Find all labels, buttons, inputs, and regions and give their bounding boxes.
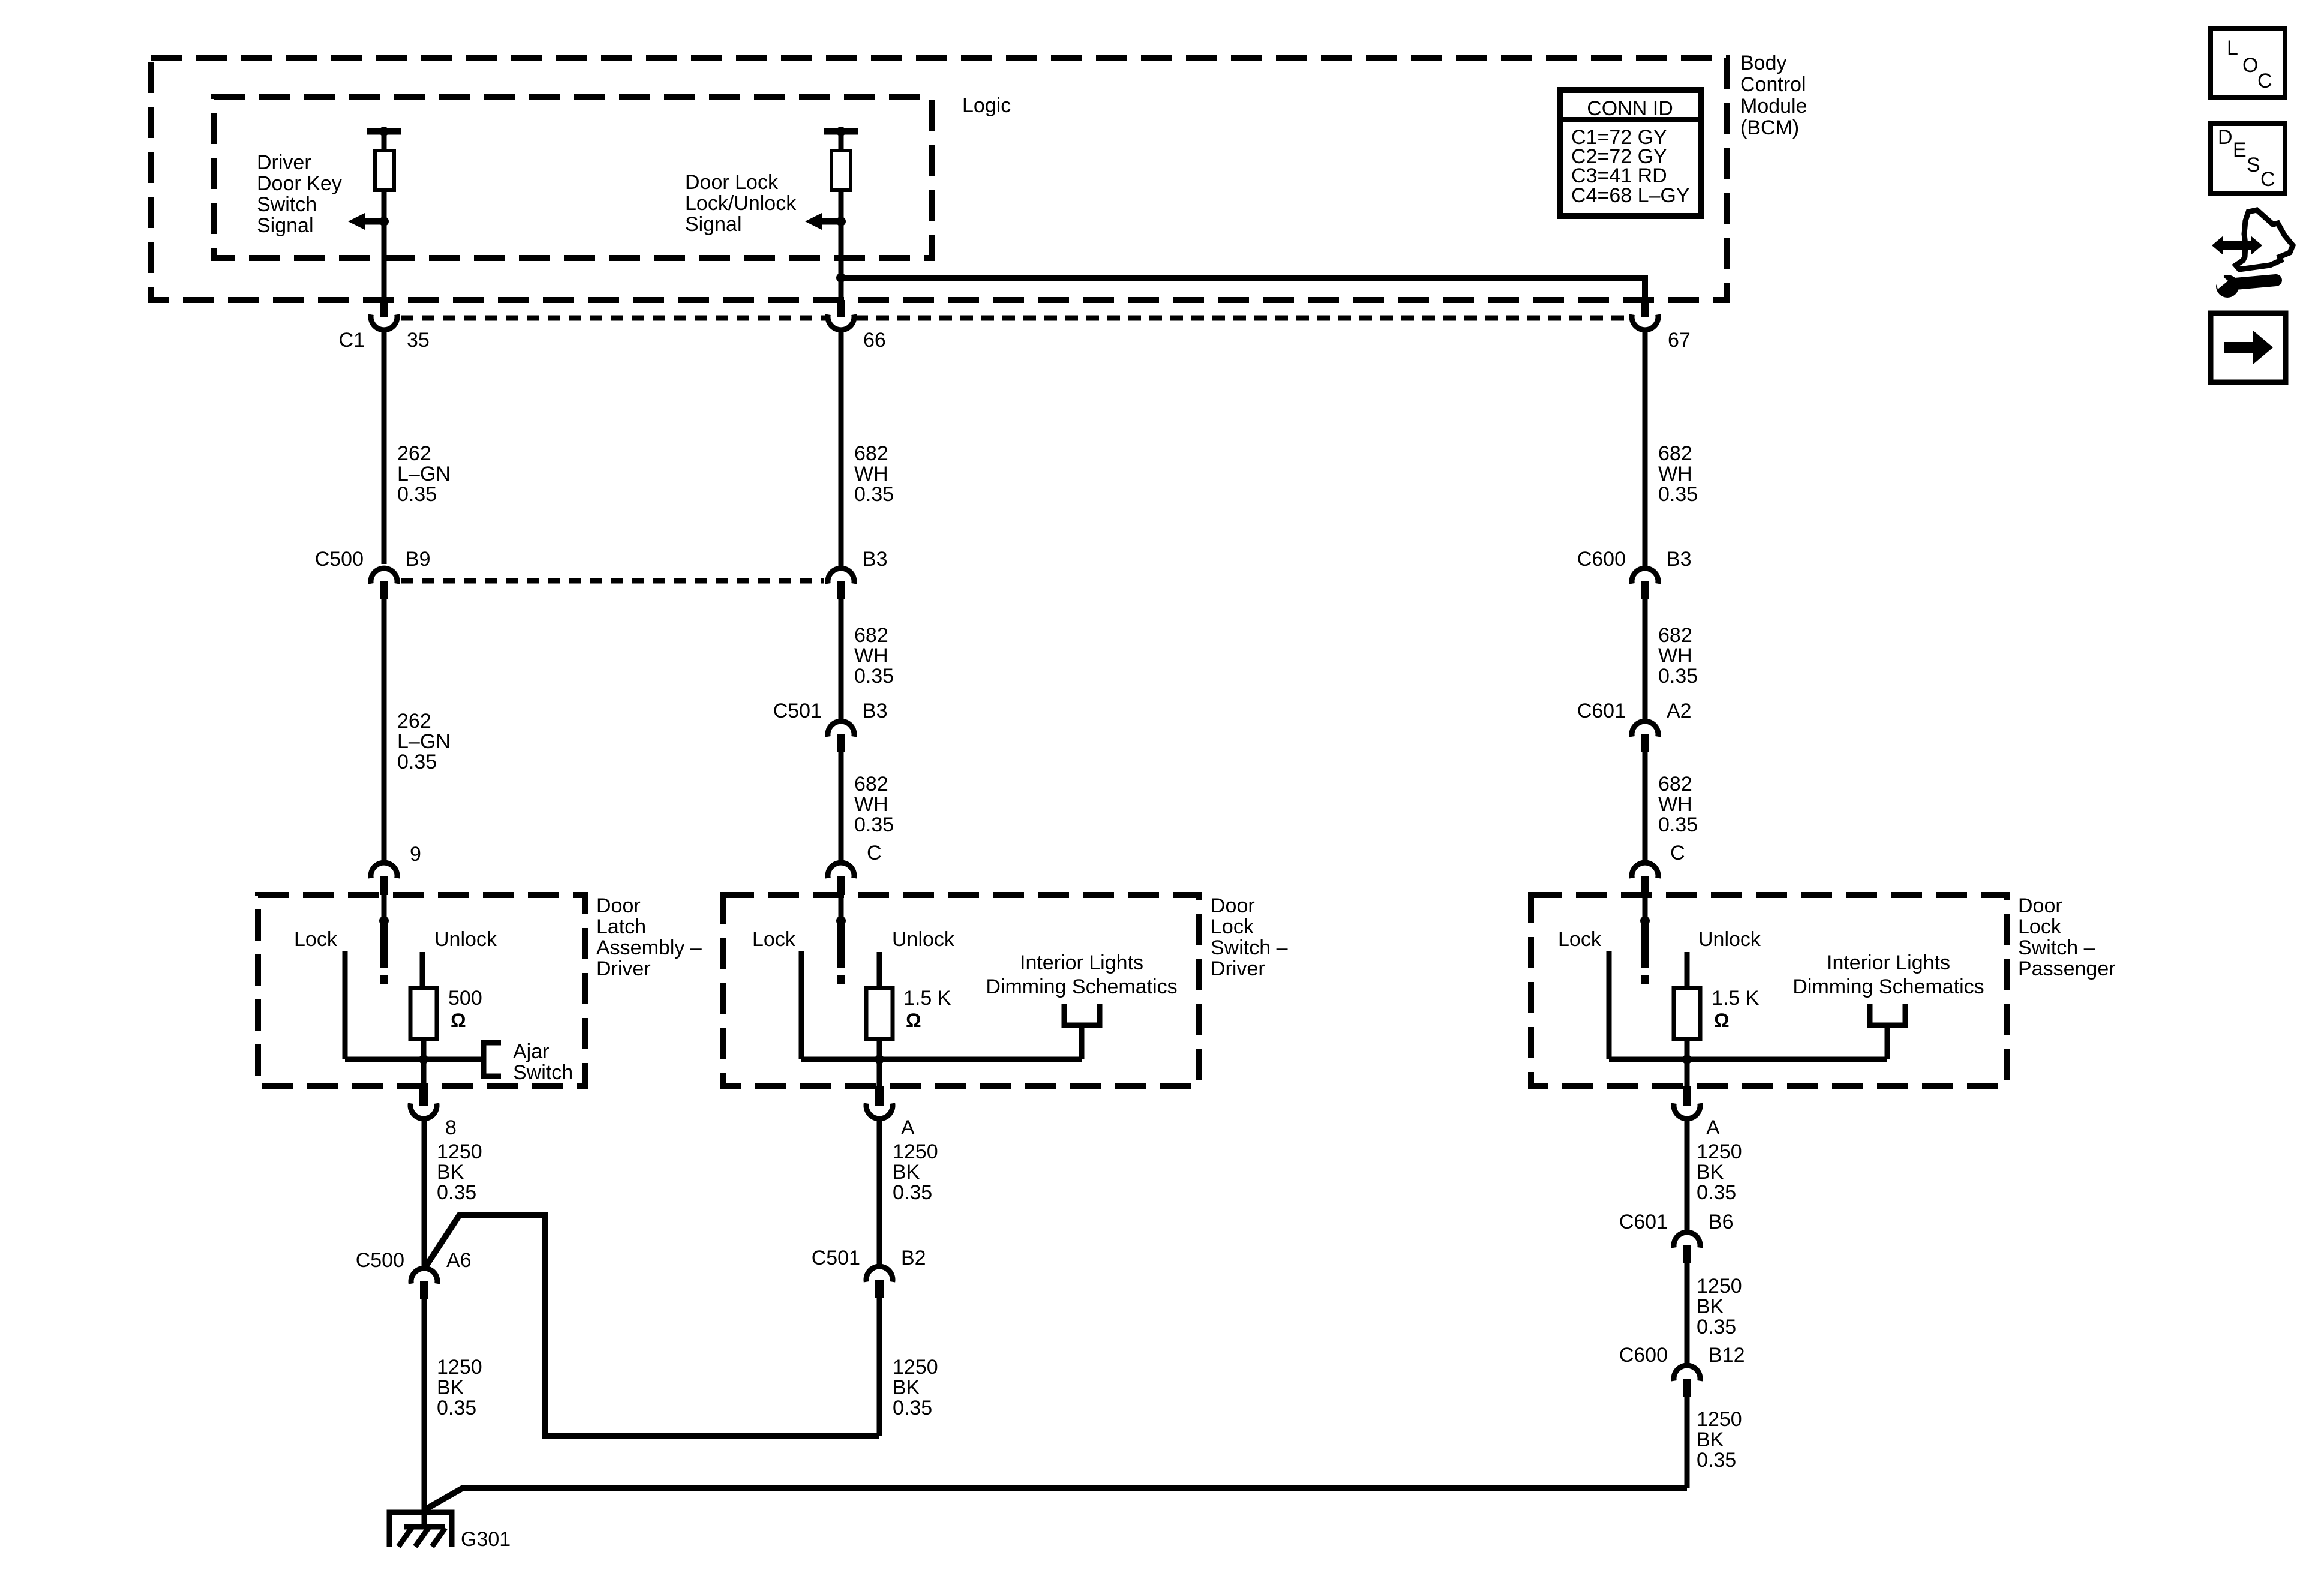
svg-text:Ajar: Ajar xyxy=(513,1040,549,1063)
svg-text:0.35: 0.35 xyxy=(1697,1449,1736,1472)
svg-text:C600: C600 xyxy=(1619,1344,1668,1367)
icon diagnostic: double arrow, outlined arrow, wrench xyxy=(2210,210,2293,298)
label Interior Lights Dimming Schematics (box3) xyxy=(1792,951,1984,998)
svg-text:Switch –: Switch – xyxy=(1211,936,1288,959)
connector pin B3 (C500 row, w2) xyxy=(828,548,888,599)
svg-text:Unlock: Unlock xyxy=(892,928,955,951)
svg-text:Lock: Lock xyxy=(752,928,796,951)
svg-text:Signal: Signal xyxy=(685,213,742,236)
label Door Lock Switch - Driver xyxy=(1211,894,1288,980)
svg-text:BK: BK xyxy=(1697,1295,1724,1318)
connector pin C (door lock switch driver entry) xyxy=(828,842,882,895)
svg-text:Body: Body xyxy=(1740,52,1787,74)
wire ground bus (w3 to ground) xyxy=(425,1488,1687,1509)
svg-text:500: 500 xyxy=(448,987,482,1010)
svg-text:C600: C600 xyxy=(1577,548,1626,571)
label Unlock (box1) xyxy=(434,928,497,951)
svg-text:Lock: Lock xyxy=(2018,915,2062,938)
svg-text:B12: B12 xyxy=(1709,1344,1745,1367)
svg-text:Door: Door xyxy=(596,894,641,917)
svg-text:0.35: 0.35 xyxy=(1697,1181,1736,1204)
node: door lock lock/unlock signal stub bar xyxy=(824,127,858,136)
wire 1250 BK w2 segment 2 xyxy=(877,1298,882,1436)
svg-text:0.35: 0.35 xyxy=(1658,665,1698,688)
svg-text:682: 682 xyxy=(1658,773,1692,795)
svg-text:0.35: 0.35 xyxy=(1697,1316,1736,1338)
wire 1250 BK w1 segment 2 xyxy=(422,1299,427,1527)
svg-text:1.5 K: 1.5 K xyxy=(1712,987,1759,1010)
wire bus (box3) with junction xyxy=(1609,1039,1887,1064)
label 682 WH 0.35 (w3 seg 3) xyxy=(1658,773,1698,836)
svg-text:Lock: Lock xyxy=(1211,915,1254,938)
wire W1a (stub to resistor) xyxy=(382,131,387,151)
svg-text:Switch: Switch xyxy=(513,1061,573,1084)
wire ground branch (w1 to w2 tie) xyxy=(425,1215,879,1436)
connector C501 pin B3 xyxy=(773,700,888,752)
wire W2b (resistor to connector C1-66) xyxy=(839,190,844,300)
svg-text:Door: Door xyxy=(2018,894,2062,917)
svg-text:S: S xyxy=(2247,154,2260,176)
svg-text:BK: BK xyxy=(437,1376,464,1399)
node: driver door key switch signal stub bar xyxy=(367,127,401,136)
svg-text:Dimming Schematics: Dimming Schematics xyxy=(1792,975,1984,998)
svg-text:682: 682 xyxy=(1658,442,1692,465)
component box: Door Latch Assembly - Driver xyxy=(258,895,585,1086)
svg-text:B2: B2 xyxy=(901,1247,926,1269)
svg-text:0.35: 0.35 xyxy=(854,483,894,506)
label 1.5 K ohm (box3) xyxy=(1712,987,1759,1031)
svg-text:Lock: Lock xyxy=(1558,928,1602,951)
unlock contact line (box3) xyxy=(1685,952,1690,990)
svg-text:35: 35 xyxy=(407,329,430,352)
svg-text:D: D xyxy=(2218,126,2233,149)
label Unlock (box2) xyxy=(892,928,955,951)
dotted harness line (C500 row) xyxy=(401,578,824,584)
svg-text:Driver: Driver xyxy=(257,151,311,174)
connector C601 pin B6 xyxy=(1619,1211,1734,1263)
label 682 WH 0.35 (w3 seg 2) xyxy=(1658,624,1698,688)
svg-text:Switch: Switch xyxy=(257,193,317,216)
svg-text:BK: BK xyxy=(893,1376,920,1399)
svg-text:Switch –: Switch – xyxy=(2018,936,2095,959)
resistor R2 door lock signal (BCM internal) xyxy=(831,151,851,190)
connector C1 pin 35 xyxy=(339,300,430,352)
switch blade (door lock switch driver) xyxy=(836,895,846,984)
connector C501 pin B2 xyxy=(812,1247,926,1298)
wire W1b (resistor to connector C1-35) xyxy=(382,190,387,300)
CONN ID table xyxy=(1560,90,1701,216)
svg-text:C500: C500 xyxy=(356,1249,404,1272)
wire 1250 BK w3 segment 3 xyxy=(1685,1397,1690,1488)
svg-text:682: 682 xyxy=(854,773,888,795)
connector pin C (door lock switch passenger entry) xyxy=(1632,842,1685,895)
svg-text:262: 262 xyxy=(397,442,431,465)
connector C600 pin B3 xyxy=(1577,548,1692,599)
label Unlock (box3) xyxy=(1698,928,1761,951)
lock contact line (box3) xyxy=(1607,951,1612,1059)
svg-text:WH: WH xyxy=(854,463,888,485)
component box: Door Lock Switch - Driver xyxy=(723,895,1199,1086)
wire 682 WH w3 segment 1 xyxy=(1643,330,1648,566)
wire bus (box1) with junction xyxy=(345,1039,484,1064)
connector pin 9 (door latch entry) xyxy=(371,843,421,895)
icon LOC box xyxy=(2211,29,2285,97)
svg-text:O: O xyxy=(2242,54,2258,77)
connector C500 pin A6 xyxy=(356,1249,472,1299)
label 500 ohm xyxy=(448,987,482,1031)
label 1250 BK 0.35 (w3 seg 2) xyxy=(1697,1275,1742,1338)
connector C1 pin 67 xyxy=(1632,300,1691,352)
svg-text:(BCM): (BCM) xyxy=(1740,116,1799,139)
svg-text:A6: A6 xyxy=(446,1249,472,1272)
signal arrow: Door Lock Lock/Unlock Signal xyxy=(805,213,846,230)
resistor 500 ohm (door latch) xyxy=(410,988,437,1039)
svg-text:C: C xyxy=(867,842,882,864)
svg-text:L–GN: L–GN xyxy=(397,463,451,485)
label 682 WH 0.35 (w2 seg 2) xyxy=(854,624,894,688)
svg-text:Door: Door xyxy=(1211,894,1255,917)
wire 1250 BK w3 segment 2 xyxy=(1685,1263,1690,1364)
svg-text:L–GN: L–GN xyxy=(397,730,451,753)
ground G301 symbol xyxy=(389,1509,452,1547)
svg-text:Lock/Unlock: Lock/Unlock xyxy=(685,192,797,215)
svg-text:C501: C501 xyxy=(773,700,822,722)
svg-text:A2: A2 xyxy=(1667,700,1692,722)
svg-text:BK: BK xyxy=(437,1161,464,1184)
label Lock (box1) xyxy=(294,928,338,951)
label 262 L-GN 0.35 (seg 2) xyxy=(397,710,451,773)
svg-text:1.5 K: 1.5 K xyxy=(903,987,951,1010)
svg-text:1250: 1250 xyxy=(1697,1275,1742,1298)
inner box: Logic, dashed outline xyxy=(214,97,932,258)
svg-text:0.35: 0.35 xyxy=(1658,483,1698,506)
svg-text:0.35: 0.35 xyxy=(1658,813,1698,836)
svg-text:Dimming Schematics: Dimming Schematics xyxy=(986,975,1177,998)
svg-text:Interior Lights: Interior Lights xyxy=(1827,951,1950,974)
svg-text:B6: B6 xyxy=(1709,1211,1734,1233)
connector pin A (driver switch) xyxy=(866,1086,915,1139)
svg-text:Latch: Latch xyxy=(596,915,646,938)
connector pin A (passenger switch) xyxy=(1674,1086,1720,1139)
label 1.5 K ohm xyxy=(903,987,951,1031)
svg-text:Door Key: Door Key xyxy=(257,172,342,195)
svg-text:CONN ID: CONN ID xyxy=(1587,97,1673,120)
switch blade (door lock switch passenger) xyxy=(1640,895,1650,984)
svg-text:C: C xyxy=(2257,70,2272,92)
unlock contact line (box1) xyxy=(420,952,425,990)
svg-text:Driver: Driver xyxy=(1211,957,1265,980)
wire 682 WH w2 segment 2 xyxy=(839,599,844,719)
svg-text:WH: WH xyxy=(1658,644,1692,667)
svg-text:C601: C601 xyxy=(1577,700,1626,722)
svg-text:Module: Module xyxy=(1740,95,1807,118)
connector C601 pin A2 xyxy=(1577,700,1692,752)
svg-text:C500: C500 xyxy=(315,548,364,571)
signal arrow: Driver Door Key Switch Signal xyxy=(348,213,389,230)
label Interior Lights Dimming Schematics (box2) xyxy=(986,951,1177,998)
connector C600 pin B12 xyxy=(1619,1344,1745,1397)
svg-text:B3: B3 xyxy=(863,700,888,722)
svg-text:Assembly –: Assembly – xyxy=(596,936,702,959)
svg-text:B3: B3 xyxy=(863,548,888,571)
label Logic xyxy=(962,94,1011,117)
interior lights dimming tap bracket (box2) xyxy=(1064,1004,1100,1059)
module box: Body Control Module (BCM), dashed outline xyxy=(151,58,1727,300)
svg-text:C601: C601 xyxy=(1619,1211,1668,1233)
label 1250 BK 0.35 (w3 seg 1) xyxy=(1697,1140,1742,1204)
wire box3 exit xyxy=(1685,1059,1690,1086)
wire 1250 BK w3 segment 1 xyxy=(1685,1119,1690,1231)
wire 682 WH w3 segment 3 xyxy=(1643,752,1648,861)
svg-text:8: 8 xyxy=(445,1116,457,1139)
svg-text:682: 682 xyxy=(854,624,888,647)
label 1250 BK 0.35 (w2 seg 2) xyxy=(893,1356,938,1419)
svg-text:1250: 1250 xyxy=(1697,1140,1742,1163)
svg-text:C501: C501 xyxy=(812,1247,860,1269)
label Lock (box2) xyxy=(752,928,796,951)
label Body Control Module (BCM) xyxy=(1740,52,1807,139)
dotted harness line (C1 row) xyxy=(401,316,1631,321)
svg-text:Driver: Driver xyxy=(596,957,651,980)
svg-text:L: L xyxy=(2227,37,2238,59)
svg-text:0.35: 0.35 xyxy=(437,1181,476,1204)
svg-text:B9: B9 xyxy=(406,548,431,571)
svg-text:0.35: 0.35 xyxy=(437,1397,476,1419)
svg-text:Passenger: Passenger xyxy=(2018,957,2116,980)
svg-text:67: 67 xyxy=(1668,329,1691,352)
svg-text:1250: 1250 xyxy=(437,1356,482,1379)
label 1250 BK 0.35 (w3 seg 3) xyxy=(1697,1408,1742,1472)
svg-text:Interior Lights: Interior Lights xyxy=(1020,951,1143,974)
wire branch W2 to pin 67 xyxy=(841,278,1645,303)
svg-text:E: E xyxy=(2233,139,2247,161)
label Door Lock Lock/Unlock Signal xyxy=(685,171,797,236)
svg-text:0.35: 0.35 xyxy=(854,813,894,836)
svg-text:BK: BK xyxy=(1697,1428,1724,1451)
icon DESC box xyxy=(2211,124,2285,193)
svg-text:Ω: Ω xyxy=(451,1010,466,1031)
lock contact line (box1) xyxy=(343,951,348,1059)
svg-text:0.35: 0.35 xyxy=(893,1397,932,1419)
svg-text:66: 66 xyxy=(863,329,886,352)
resistor 1.5 K (driver switch) xyxy=(866,988,893,1039)
svg-text:Unlock: Unlock xyxy=(434,928,497,951)
svg-text:WH: WH xyxy=(1658,463,1692,485)
svg-text:Lock: Lock xyxy=(294,928,338,951)
label Lock (box3) xyxy=(1558,928,1602,951)
resistor 1.5 K (passenger switch) xyxy=(1674,988,1700,1039)
wire 1250 BK w2 segment 1 xyxy=(877,1119,882,1265)
label 1250 BK 0.35 (w1 seg 2) xyxy=(437,1356,482,1419)
wire 682 WH w2 segment 1 xyxy=(839,330,844,566)
svg-text:1250: 1250 xyxy=(437,1140,482,1163)
svg-text:WH: WH xyxy=(854,644,888,667)
svg-text:0.35: 0.35 xyxy=(893,1181,932,1204)
label 1250 BK 0.35 (w2 seg 1) xyxy=(893,1140,938,1204)
interior lights dimming tap bracket (box3) xyxy=(1870,1004,1905,1059)
resistor R1 driver door key (BCM internal) xyxy=(375,151,394,190)
node junction on W2 (branch to pin 67) xyxy=(836,273,846,283)
svg-text:A: A xyxy=(1706,1116,1720,1139)
switch blade (door latch driver) xyxy=(379,895,389,984)
svg-text:Logic: Logic xyxy=(962,94,1011,117)
label Driver Door Key Switch Signal xyxy=(257,151,342,237)
lock contact line (box2) xyxy=(799,951,804,1059)
svg-text:682: 682 xyxy=(854,442,888,465)
svg-text:Control: Control xyxy=(1740,73,1806,96)
svg-text:Door Lock: Door Lock xyxy=(685,171,779,194)
label Door Latch Assembly - Driver xyxy=(596,894,702,980)
label Door Lock Switch - Passenger xyxy=(2018,894,2116,980)
label 682 WH 0.35 (w2 seg 3) xyxy=(854,773,894,836)
svg-text:WH: WH xyxy=(1658,793,1692,816)
svg-text:B3: B3 xyxy=(1667,548,1692,571)
ajar switch contact bracket xyxy=(484,1043,501,1076)
svg-text:C: C xyxy=(2260,168,2275,191)
wire 682 WH w2 segment 3 xyxy=(839,752,844,861)
svg-text:0.35: 0.35 xyxy=(397,483,437,506)
unlock contact line (box2) xyxy=(877,952,882,990)
wire 1250 BK w1 segment 1 xyxy=(422,1119,427,1267)
connector C1 pin 66 xyxy=(828,300,886,352)
wire W2a (stub to resistor) xyxy=(839,131,844,151)
svg-text:C1: C1 xyxy=(339,329,365,352)
svg-text:0.35: 0.35 xyxy=(397,751,437,773)
svg-text:G301: G301 xyxy=(461,1528,511,1551)
svg-text:Ω: Ω xyxy=(1714,1010,1730,1031)
connector pin 8 (door latch) xyxy=(410,1086,457,1139)
svg-text:682: 682 xyxy=(1658,624,1692,647)
svg-text:BK: BK xyxy=(893,1161,920,1184)
svg-text:262: 262 xyxy=(397,710,431,733)
svg-text:1250: 1250 xyxy=(893,1356,938,1379)
svg-text:BK: BK xyxy=(1697,1161,1724,1184)
svg-text:A: A xyxy=(901,1116,915,1139)
wire 682 WH w3 segment 2 xyxy=(1643,599,1648,719)
label Ajar Switch xyxy=(513,1040,573,1084)
svg-text:Signal: Signal xyxy=(257,214,314,237)
wire 262 L-GN segment 1 xyxy=(382,330,387,564)
svg-text:WH: WH xyxy=(854,793,888,816)
label 262 L-GN 0.35 (seg 1) xyxy=(397,442,451,506)
svg-text:Ω: Ω xyxy=(906,1010,921,1031)
wire box2 exit xyxy=(877,1059,882,1086)
icon forward arrow box xyxy=(2211,313,2286,382)
connector C500 pin B9 xyxy=(315,548,431,599)
wire 262 L-GN segment 2 xyxy=(382,599,387,861)
label 682 WH 0.35 (w3 seg 1) xyxy=(1658,442,1698,506)
svg-text:C4=68 L–GY: C4=68 L–GY xyxy=(1571,184,1690,207)
svg-text:9: 9 xyxy=(410,843,421,866)
svg-text:1250: 1250 xyxy=(1697,1408,1742,1431)
svg-text:C: C xyxy=(1670,842,1685,864)
svg-text:0.35: 0.35 xyxy=(854,665,894,688)
label G301 xyxy=(461,1528,511,1551)
label 1250 BK 0.35 (w1 seg 1) xyxy=(437,1140,482,1204)
svg-text:1250: 1250 xyxy=(893,1140,938,1163)
component box: Door Lock Switch - Passenger xyxy=(1531,895,2007,1086)
wire bus (box2) with junction xyxy=(801,1039,1082,1064)
label 682 WH 0.35 (w2 seg 1) xyxy=(854,442,894,506)
wire box1 exit xyxy=(421,1059,427,1086)
svg-text:Unlock: Unlock xyxy=(1698,928,1761,951)
